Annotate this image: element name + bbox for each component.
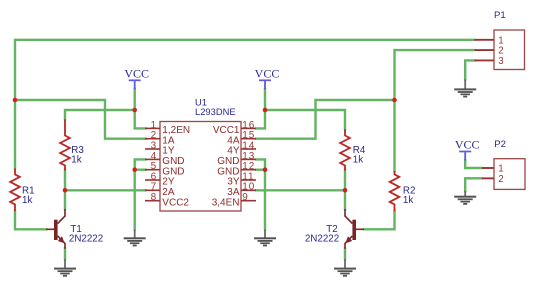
U1 pin 7 (2A): [145, 182, 175, 198]
wire U1 pin 10 to T2 collector node: [256, 189, 345, 191]
ground (P1 pin 3): [454, 79, 476, 97]
ground (U1 GND left): [124, 230, 146, 247]
U1 pin 15 (4A): [227, 130, 256, 146]
svg-text:1k: 1k: [22, 195, 32, 206]
junction node VCC2/R4: [263, 108, 268, 113]
ground (T1 emitter): [54, 259, 76, 277]
wire VCC to U1 pin 1: [135, 89, 146, 129]
svg-text:1: 1: [498, 164, 503, 175]
power symbol VCC (left): [124, 66, 149, 89]
ground (P2 pin 2): [454, 191, 476, 205]
U1 pin 9 (3,4EN): [212, 192, 256, 208]
svg-text:1k: 1k: [71, 154, 81, 165]
U1 pin 1 (1,2EN): [145, 120, 190, 136]
P2 pin 2: [482, 174, 504, 185]
wire net P1-1 / top rail to R1: [15, 40, 475, 169]
junction node T2 collector: [343, 188, 348, 193]
power symbol VCC (middle): [255, 66, 280, 89]
connector P2 body: [494, 139, 525, 189]
P1 pin 1: [475, 35, 504, 46]
svg-text:L293DNE: L293DNE: [195, 106, 236, 117]
wire VCC2 junction to R4 top: [265, 110, 345, 130]
svg-text:10: 10: [242, 182, 255, 193]
svg-text:7: 7: [151, 182, 157, 193]
resistor R4 1k: [340, 129, 366, 170]
svg-text:1Y: 1Y: [162, 146, 175, 157]
wire branch to U1 pin 15 (4A): [256, 100, 395, 139]
svg-text:8: 8: [151, 192, 157, 203]
svg-text:1k: 1k: [403, 195, 413, 206]
svg-text:P1: P1: [494, 10, 506, 21]
U1 pin 4 (GND): [145, 151, 185, 167]
svg-text:3: 3: [498, 56, 503, 67]
U1 pin 13 (GND): [217, 151, 256, 167]
P1 pin 3: [475, 56, 504, 67]
wire U1 pin 4 GND column: [135, 159, 146, 229]
wire VCC to P2 pin 1: [465, 160, 482, 168]
resistor R2 1k: [390, 171, 416, 211]
svg-text:2A: 2A: [162, 187, 175, 198]
wire VCC junction to R3 top: [65, 110, 135, 120]
svg-text:VCC: VCC: [455, 137, 480, 151]
svg-text:2N2222: 2N2222: [305, 234, 339, 245]
junction node T1 collector: [63, 188, 68, 193]
U1 pin 5 (GND): [145, 161, 185, 177]
power symbol VCC (P2): [455, 137, 480, 160]
U1 pin 10 (3A): [227, 182, 256, 198]
wire R1 bottom to T1 base: [15, 211, 46, 229]
svg-text:2N2222: 2N2222: [69, 234, 103, 245]
U1 pin 16 (VCC1): [213, 120, 256, 136]
U1 pin 6 (2Y): [145, 171, 175, 187]
wire U1 pin 12 to GND column: [256, 168, 265, 170]
ground (U1 GND right): [254, 230, 276, 247]
wire U1 pin 13 GND column: [256, 159, 265, 229]
svg-text:VCC2: VCC2: [162, 197, 189, 208]
svg-text:14: 14: [242, 140, 255, 151]
svg-text:1k: 1k: [353, 154, 363, 165]
wire VCC2 to U1 pin 16: [256, 89, 265, 128]
wire node 1A: junction to U1 pin 2: [15, 100, 146, 139]
connector P1 body: [494, 10, 525, 70]
svg-text:3A: 3A: [227, 187, 240, 198]
svg-text:9: 9: [242, 192, 248, 203]
svg-text:2: 2: [498, 174, 503, 185]
wire U1 pin 7 to T1 collector node: [65, 189, 146, 191]
wire R3 bottom to node: [64, 170, 66, 210]
U1 pin 12 (GND): [217, 161, 256, 177]
wire U1 pin 5 to GND column: [135, 168, 146, 170]
transistor T1 2N2222: [46, 209, 103, 249]
junction node R2/pin15: [392, 98, 397, 103]
U1 pin 2 (1A): [145, 130, 175, 146]
wire T1 emitter to ground: [64, 248, 66, 259]
junction node GND pins 12-13: [263, 167, 268, 172]
junction node base-R1/top rail: [13, 98, 18, 103]
transistor T2 2N2222: [305, 209, 364, 249]
resistor R1 1k: [10, 169, 34, 212]
wire R4 bottom to node: [344, 170, 346, 210]
P1 pin 2: [475, 46, 504, 57]
resistor R3 1k: [60, 119, 84, 170]
wire R2 bottom to T2 base: [364, 211, 395, 229]
U1 pin 3 (1Y): [145, 140, 175, 156]
junction node VCC1/R3: [132, 108, 137, 113]
wire net P1-2 / R2 top: [395, 50, 475, 171]
wire P2 pin 2 to ground: [465, 178, 482, 191]
svg-text:VCC: VCC: [255, 66, 280, 80]
ground (T2 emitter): [334, 259, 356, 277]
wire net P1-3 to ground: [465, 60, 474, 79]
junction node GND pins 4-5: [132, 167, 137, 172]
svg-text:4Y: 4Y: [227, 146, 240, 157]
P2 pin 1: [482, 164, 504, 175]
svg-text:3,4EN: 3,4EN: [212, 197, 240, 208]
IC U1 L293DNE body: [160, 97, 241, 211]
wire T2 emitter to ground: [344, 248, 346, 259]
svg-text:3: 3: [151, 140, 157, 151]
svg-text:P2: P2: [494, 139, 506, 150]
svg-text:VCC: VCC: [124, 66, 149, 80]
U1 pin 8 (VCC2): [145, 192, 189, 208]
U1 pin 11 (3Y): [227, 171, 256, 187]
U1 pin 14 (4Y): [227, 140, 256, 156]
